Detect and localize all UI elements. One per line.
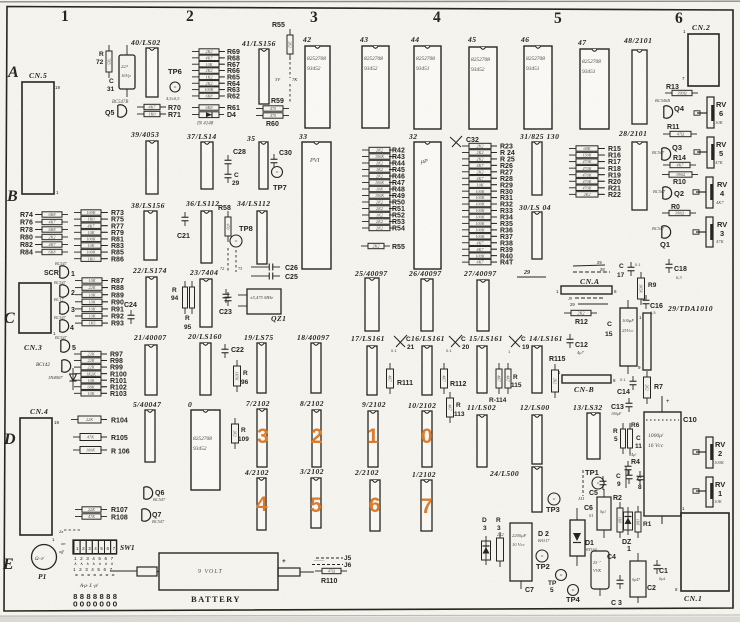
IC 47 [580,49,609,129]
capacitor C32 [450,136,462,147]
capacitor C23 [227,292,229,297]
resistor R113 [449,392,451,398]
capacitor C31 [119,55,135,89]
resistor R99 [74,366,81,368]
IC 2/2102 [370,480,380,531]
IC 7/2102 [257,409,267,467]
resistor R15 [569,148,576,150]
transistor T4 [60,320,69,332]
IC 29 TDA1010 bar [643,313,651,370]
resistor R48 [362,188,369,190]
IC 42 [305,46,330,128]
resistors R114 R115p [498,363,500,369]
resistor R1v [637,506,639,512]
resistor R18 [569,167,576,169]
IC 24/L500 [532,467,542,512]
resistor R53 [362,221,369,223]
IC 21/40007 [145,345,157,395]
resistor R61 [192,107,199,109]
IC 5/40047 [145,410,155,462]
resistor R45 [362,169,369,171]
IC 3/2102 [311,478,321,528]
resistor R66 [192,70,199,72]
resistor R82 [35,244,42,246]
test point TP7 [272,167,283,178]
resistor R85 [74,251,81,253]
transistor T2 [60,285,69,297]
resistor R47 [362,182,369,184]
jumpers J5 J6 [316,557,343,559]
resistor R22 [569,193,576,195]
resistor R96 [236,360,238,366]
IC 33 PVI [302,142,331,269]
IC 20/LS160 [200,343,211,395]
connector CN.4 [20,418,52,535]
capacitor C18 [668,259,670,264]
resistor R79 [74,231,81,233]
transistor Q6 [144,487,153,499]
resistor R32 [462,203,469,205]
IC 39/4053 [146,141,158,194]
zener DZ1 [627,507,629,535]
resistor R52 [362,214,369,216]
trimmer RV3 [706,217,713,247]
capacitor C27 [225,289,227,294]
resistor R46 [362,175,369,177]
IC 4/2102 [257,478,266,530]
dip switch SW1 [73,540,117,554]
IC 28/2101 [632,142,647,210]
IC 8/2102 [312,410,321,467]
wire battery-P1 [110,570,137,572]
connector CN.A [561,286,612,294]
resistor R67 [192,63,199,65]
resistor R50 [362,201,369,203]
IC 44 [414,46,441,129]
capacitor C10 [644,412,681,516]
resistor R81 [74,238,81,240]
resistor R51 [362,208,369,210]
resistor R23 [462,145,469,147]
resistor R29 [462,184,469,186]
resistor R39 [462,248,469,250]
IC 40/LS02 [146,48,158,97]
IC 13/LS32 [587,413,600,459]
IC 9/2102 [368,411,378,467]
resistor R42 [362,149,369,151]
resistor R38 [462,242,469,244]
IC 32 uP [414,142,441,269]
resistor R111 [389,363,391,369]
resistor R 25 [462,158,469,160]
resistor R74 [35,214,42,216]
resistor R88 [75,287,82,289]
resistor R10 [662,174,669,176]
resistor R104 [71,419,78,421]
resistor R73 [74,212,81,214]
capacitor C29 [227,169,229,174]
IC 46 [524,46,552,129]
resistor R83 [74,245,81,247]
transistor Q5 [118,105,127,117]
resistor R34 [462,216,469,218]
transistor Q7 [142,509,151,521]
capacitor C20 [449,335,462,347]
resistor R28 [462,177,469,179]
IC 22/LS174 [146,277,157,327]
connector CN.2 [688,34,719,86]
transistor Q1 [662,226,671,238]
resistor R103 [74,392,81,394]
resistor R101 [74,379,81,381]
resistor R4T [462,261,469,263]
IC 34/LS112 [257,211,267,264]
resistor R76 [35,221,42,223]
diode 1N4007 [72,368,74,390]
IC 30/LS04 [532,212,542,259]
capacitor C11 cluster [622,423,624,429]
capacitor C8 [639,471,641,476]
test point TP4 [568,585,579,596]
resistor R84 [35,251,42,253]
test point TP5 [556,570,567,581]
resistor R33 [462,210,469,212]
IC 38/LS156 [144,211,157,260]
resistors R94 R95 [184,281,186,287]
battery [159,553,278,590]
IC 0 RAM [191,410,220,490]
transistor Q3 [662,148,671,160]
capacitor C21 [184,212,186,217]
resistor R92 [75,315,82,317]
resistor R87 [75,280,82,282]
resistor R43 [362,156,369,158]
capacitor C'21 [394,335,407,347]
resistor R98 [74,360,81,362]
resistor R55b [361,245,368,247]
resistor R44 [362,162,369,164]
resistor R49 [362,195,369,197]
IC 23/7404 [200,279,212,327]
diode D4 [192,114,199,116]
resistor R31 [462,197,469,199]
IC 41/LS156 [259,49,269,104]
IC 36/LS112 [201,211,212,263]
resistor R100 [74,373,81,375]
resistor R7 [646,371,648,377]
dashed net 3V [289,57,291,78]
IC 43 [362,46,389,128]
resistor R77 [74,225,81,227]
resistor R80 [35,236,42,238]
resistor R 24 [462,151,469,153]
capacitor C14 [632,376,634,381]
resistor R90 [75,301,82,303]
capacitor C15 [620,308,637,366]
capacitor C4 [591,551,609,589]
resistor R21 [569,187,576,189]
capacitor C16 [645,295,647,300]
resistor R109 [234,418,236,424]
connector CN.5 [22,82,54,194]
resistor R97 [74,353,81,355]
crystal QZ1 [247,289,281,314]
capacitor C2 [630,561,646,597]
resistor R35 [462,222,469,224]
capacitor C22 [224,344,226,349]
resistor R72 [108,45,110,51]
IC 35 [259,142,268,189]
resistor R91 [75,308,82,310]
capacitor C12 [569,334,571,339]
IC 18/40097 [311,343,321,393]
resistor R54 [362,227,369,229]
IC 48/2101 [632,50,647,124]
transistor T5 [61,340,70,352]
capacitor C9 [625,467,627,488]
resistor R27 [462,171,469,173]
trimmer RV1 [706,477,713,507]
capacitor C19 [509,335,522,347]
IC 45 [469,47,497,129]
IC 31/825 [532,142,542,195]
resistor R37 [462,235,469,237]
trimmer RV6 [707,97,714,128]
IC 25/40097 [365,278,379,331]
IC 14/LS161 [532,346,542,393]
test point TP3 [548,493,560,505]
connector CN.1 [681,513,729,591]
resistor R64 [192,82,199,84]
connector CN.3 [19,283,51,333]
resistor R112 [443,363,445,369]
resistor R93 [75,322,82,324]
trimmer RV4 [706,177,713,208]
capacitor C17 [630,262,632,267]
transistor Q4 [664,106,673,118]
IC 17/LS161 [367,346,377,395]
resistors R107 R108 [75,509,82,511]
transistor BC142 [62,360,71,372]
IC 19/LS75 [257,343,266,393]
capacitors C25 C26 [251,266,262,268]
resistor R89 [75,294,82,296]
IC 11/LS02 [477,415,487,467]
resistor R68 [192,57,199,59]
IC 15/LS161 [477,346,487,393]
capacitor C3 [619,575,621,580]
resistor R86 [74,258,81,260]
capacitor C28 [227,155,229,160]
dashed net TP8 [227,248,229,272]
IC 26/40097 [421,279,433,331]
resistor R20 [569,180,576,182]
resistors R70 R71 [137,106,144,108]
resistor R78 [35,229,42,231]
resistor R65 [192,76,199,78]
IC 27/40097 [477,280,489,331]
connector CN.B [562,375,611,383]
resistor R102 [74,386,81,388]
transistor T3 [60,302,69,314]
resistor R9 [640,272,642,278]
capacitor C5 [602,476,604,481]
resistor R16 [569,154,576,156]
jumper J9 [573,265,605,266]
resistor R69 [192,51,199,53]
resistor R75 [74,218,81,220]
trimmer RV5 [707,137,714,168]
test point TP2 [536,550,548,562]
potentiometer P1 [32,545,57,570]
IC 16/LS161 [422,346,432,395]
capacitor C30 [273,154,275,159]
IC 37/LS14 [201,142,213,189]
resistor R17 [569,161,576,163]
resistor R62 [192,95,199,97]
resistor R19 [569,174,576,176]
capacitor C7 [510,523,532,581]
transistor Q2 [663,187,672,199]
capacitor C6 [597,497,611,530]
resistor R63 [192,89,199,91]
resistor R12 [564,312,571,314]
resistor R36 [462,229,469,231]
resistor R40 [462,255,469,257]
diode D1 [570,520,585,556]
IC 10/2102 [422,411,432,467]
resistor R105 [73,436,80,438]
resistor R26 [462,164,469,166]
trimmer RV2 [706,437,713,468]
resistor R30 [462,190,469,192]
resistor R110 [315,570,322,572]
resistor R106 [73,449,80,451]
jumper J9b [575,297,603,299]
jumper J11 [582,470,584,496]
IC 12/LS00 [532,415,542,464]
IC 1/2102 [421,480,432,531]
capacitor C1 [656,560,658,565]
